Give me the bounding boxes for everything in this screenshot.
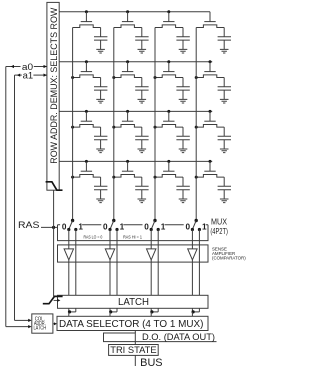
capacitor C31	[94, 136, 107, 139]
transistor Q24 gate bar	[204, 71, 215, 73]
switch throw 1 contact column 3	[157, 228, 160, 231]
ground cell 34	[220, 149, 229, 153]
wire column latch to data selector	[53, 323, 55, 325]
svg-text:LATCH: LATCH	[34, 326, 47, 332]
wire latch output B column 2	[116, 308, 118, 312]
wire latch output B column 1	[75, 308, 77, 312]
svg-text:(4P2T): (4P2T)	[210, 226, 228, 236]
transistor Q13 gate bar	[163, 21, 174, 23]
ground cell 41	[96, 199, 105, 203]
wire a0 vertical	[5, 67, 7, 327]
wire latch output B column 3	[157, 308, 159, 312]
bit line column 3	[154, 28, 156, 221]
wire to data selector column 3	[150, 312, 152, 316]
ground cell 32	[138, 149, 147, 153]
data out buffer box	[104, 333, 136, 342]
junction gate row1 col2	[126, 10, 129, 13]
junction bit line tap row2 col1	[71, 76, 74, 79]
ground lead cell 13	[182, 40, 184, 49]
junction bit line tap row4 col3	[154, 176, 157, 179]
junction gate row3 col4	[209, 110, 212, 113]
transistor Q24 gate lead	[209, 62, 211, 72]
transistor Q24 channel	[196, 75, 224, 78]
svg-text:1: 1	[202, 223, 207, 232]
latch strobe rising edge symbol	[43, 296, 63, 303]
transistor Q13 gate lead	[168, 12, 170, 22]
wire sense amp output column 1	[68, 260, 70, 295]
switch pole junction column 2	[112, 219, 115, 222]
capacitor C43	[176, 186, 189, 189]
wire a1 vertical	[14, 75, 16, 320]
transistor Q23 channel	[155, 75, 183, 78]
transistor Q33 gate lead	[168, 111, 170, 121]
svg-text:1: 1	[78, 223, 83, 232]
wire merge column 2	[110, 311, 117, 313]
transistor Q31 gate bar	[81, 120, 92, 122]
junction bit line tap row4 col2	[112, 176, 115, 179]
wire throw0 to sense amp column 4	[191, 230, 193, 249]
svg-text:BUS: BUS	[140, 357, 162, 369]
transistor Q42 gate lead	[127, 161, 129, 171]
wire latch output A column 3	[150, 308, 152, 312]
transistor Q43 gate bar	[163, 170, 174, 172]
ground cell 11	[96, 49, 105, 53]
ground lead cell 12	[141, 40, 143, 49]
transistor Q41 gate lead	[85, 161, 87, 171]
junction bit line tap row4 col4	[195, 176, 198, 179]
junction gate row3 col1	[85, 110, 88, 113]
capacitor C44	[218, 186, 231, 189]
transistor Q21 gate lead	[85, 62, 87, 72]
arrowhead a1 left	[17, 73, 20, 76]
transistor Q44 gate bar	[204, 170, 215, 172]
wire a1 horizontal to label	[15, 74, 22, 76]
svg-text:0: 0	[144, 223, 149, 232]
junction bit line tap row3 col2	[112, 126, 115, 129]
row address demux box	[47, 2, 59, 190]
transistor Q23 gate bar	[163, 71, 174, 73]
transistor Q34 gate bar	[204, 120, 215, 122]
switch pole junction column 3	[153, 219, 156, 222]
ground cell 12	[138, 49, 147, 53]
capacitor C43 lead	[182, 177, 184, 186]
ground lead cell 21	[100, 90, 102, 99]
transistor Q42 gate bar	[122, 170, 133, 172]
switch throw 1 contact column 4	[198, 228, 201, 231]
arrowhead a1 into demux	[44, 73, 47, 76]
ground cell 33	[179, 149, 188, 153]
latch strobe arrow	[54, 299, 58, 301]
wire throw0 to sense amp column 2	[109, 230, 111, 249]
junction gate row1 col3	[167, 10, 170, 13]
switch throw 0 contact column 4	[191, 228, 194, 231]
arrowhead a0 left	[11, 65, 14, 68]
transistor Q43 gate lead	[168, 161, 170, 171]
svg-text:RAS: RAS	[18, 220, 40, 231]
junction bit line tap row3 col3	[154, 126, 157, 129]
capacitor C34 lead	[223, 127, 225, 136]
capacitor C23	[176, 87, 189, 90]
arrowhead a0 into demux	[44, 65, 47, 68]
wire throw1 bypass to latch column 2	[116, 230, 118, 296]
bit line column 4	[195, 28, 197, 221]
transistor Q11 gate lead	[85, 12, 87, 22]
svg-text:1: 1	[161, 223, 166, 232]
ground lead cell 32	[141, 140, 143, 149]
junction gate row4 col2	[126, 160, 129, 163]
wire to data selector column 1	[68, 312, 70, 316]
wire tri state to bus	[134, 355, 136, 366]
transistor Q21 channel	[73, 75, 101, 78]
transistor Q14 gate lead	[209, 12, 211, 22]
junction bit line tap row2 col2	[112, 76, 115, 79]
wire sense amp output column 4	[191, 260, 193, 295]
ground lead cell 42	[141, 190, 143, 199]
transistor Q44 channel	[196, 175, 224, 178]
svg-text:LATCH: LATCH	[118, 297, 149, 308]
transistor Q23 gate lead	[168, 62, 170, 72]
capacitor C12 lead	[141, 28, 143, 37]
capacitor C24 lead	[223, 78, 225, 87]
wire throw1 bypass to latch column 3	[157, 230, 159, 296]
capacitor C23 lead	[182, 78, 184, 87]
ground cell 44	[220, 199, 229, 203]
svg-text:1: 1	[120, 223, 125, 232]
ground lead cell 22	[141, 90, 143, 99]
transistor Q32 gate lead	[127, 111, 129, 121]
sense amplifier U4	[188, 249, 197, 260]
transistor Q11 gate bar	[81, 21, 92, 23]
junction merge column 4	[192, 310, 195, 313]
ground lead cell 44	[223, 190, 225, 199]
junction merge column 2	[109, 310, 112, 313]
ground cell 43	[179, 199, 188, 203]
wire to data selector column 2	[109, 312, 111, 316]
wire throw0 to sense amp column 1	[68, 230, 70, 249]
capacitor C41 lead	[100, 177, 102, 186]
ground cell 24	[220, 99, 229, 103]
capacitor C13 lead	[182, 28, 184, 37]
switch pole junction column 1	[71, 219, 74, 222]
capacitor C21	[94, 87, 107, 90]
word line row 1	[59, 11, 210, 13]
ground lead cell 14	[223, 40, 225, 49]
wire data out to tri state	[134, 342, 136, 345]
ground cell 21	[96, 99, 105, 103]
sense amplifier U1	[64, 249, 73, 260]
bit line column 1	[72, 28, 74, 221]
wire RAS vertical to latch strobe	[53, 190, 55, 296]
transistor Q11 channel	[73, 25, 101, 28]
junction gate row2 col2	[126, 60, 129, 63]
transistor Q22 gate bar	[122, 71, 133, 73]
word line row 3	[59, 110, 212, 112]
svg-text:RAS HI = 1: RAS HI = 1	[123, 234, 142, 239]
capacitor C14 lead	[223, 28, 225, 37]
wire throw1 bypass to latch column 1	[75, 230, 77, 296]
capacitor C32	[135, 136, 148, 139]
ground cell 31	[96, 149, 105, 153]
capacitor C12	[135, 37, 148, 40]
junction bit line tap row2 col3	[154, 76, 157, 79]
wire throw1 bypass to latch column 4	[198, 230, 200, 296]
junction gate row3 col3	[167, 110, 170, 113]
capacitor C33 lead	[182, 127, 184, 136]
switch throw 0 contact column 1	[67, 228, 70, 231]
transistor Q33 channel	[155, 125, 183, 128]
arrowhead into data selector	[54, 322, 57, 325]
ground lead cell 31	[100, 140, 102, 149]
capacitor C21 lead	[100, 78, 102, 87]
junction bit line tap row3 col1	[71, 126, 74, 129]
capacitor C31 lead	[100, 127, 102, 136]
junction gate row2 col1	[85, 60, 88, 63]
svg-text:D.O. (DATA OUT): D.O. (DATA OUT)	[142, 332, 215, 342]
capacitor C14	[218, 37, 231, 40]
wire a0 horizontal to label	[6, 66, 21, 68]
capacitor C11	[94, 37, 107, 40]
svg-text:0: 0	[62, 223, 67, 232]
capacitor C22 lead	[141, 78, 143, 87]
capacitor C22	[135, 87, 148, 90]
transistor Q31 gate lead	[85, 111, 87, 121]
switch throw 1 contact column 1	[74, 228, 77, 231]
transistor Q14 channel	[196, 25, 224, 28]
junction RAS	[52, 226, 55, 229]
transistor Q21 gate bar	[81, 71, 92, 73]
switch pole junction column 4	[195, 219, 198, 222]
sense amplifier box	[58, 245, 209, 262]
transistor Q22 channel	[114, 75, 142, 78]
capacitor C33	[176, 136, 189, 139]
capacitor C11 lead	[100, 28, 102, 37]
svg-text:TRI STATE: TRI STATE	[110, 344, 156, 355]
transistor Q13 channel	[155, 25, 183, 28]
transistor Q34 channel	[196, 125, 224, 128]
ground cell 14	[220, 49, 229, 53]
ground cell 23	[179, 99, 188, 103]
ground lead cell 41	[100, 190, 102, 199]
svg-text:(COMPARATOR): (COMPARATOR)	[212, 255, 246, 260]
latch box	[58, 295, 209, 308]
junction merge column 3	[150, 310, 153, 313]
bit line column 2	[113, 28, 115, 221]
switch lever column 3	[151, 221, 155, 230]
junction gate row2 col3	[167, 60, 170, 63]
svg-text:a1: a1	[23, 70, 33, 80]
junction bit line tap row4 col1	[71, 176, 74, 179]
sense amplifier U2	[105, 249, 114, 260]
ground lead cell 34	[223, 140, 225, 149]
wire latch output A column 2	[109, 308, 111, 312]
junction gate row3 col2	[126, 110, 129, 113]
wire a1 into demux	[33, 74, 47, 76]
wire latch output A column 4	[191, 308, 193, 312]
ground lead cell 11	[100, 40, 102, 49]
junction bit line tap row2 col4	[195, 76, 198, 79]
junction merge column 1	[68, 310, 71, 313]
junction bit line tap row3 col4	[195, 126, 198, 129]
tri state box	[109, 345, 159, 356]
transistor Q12 gate lead	[127, 12, 129, 22]
wire RAS to mux	[41, 226, 58, 228]
junction gate row2 col4	[209, 60, 212, 63]
wire merge column 4	[192, 311, 199, 313]
svg-text:0: 0	[185, 223, 190, 232]
transistor Q32 channel	[114, 125, 142, 128]
switch throw 0 contact column 3	[150, 228, 153, 231]
junction gate row1 col1	[85, 10, 88, 13]
capacitor C41	[94, 186, 107, 189]
RAS falling-edge strobe at demux bottom	[46, 182, 63, 190]
switch lever column 1	[69, 221, 73, 230]
ground lead cell 24	[223, 90, 225, 99]
junction gate row4 col3	[167, 160, 170, 163]
transistor Q32 gate bar	[122, 120, 133, 122]
wire a0 into demux	[34, 66, 47, 68]
data selector box	[57, 316, 208, 330]
capacitor C42 lead	[141, 177, 143, 186]
ground lead cell 43	[182, 190, 184, 199]
wire latch output A column 1	[68, 308, 70, 312]
wire sense amp output column 2	[109, 260, 111, 295]
transistor Q31 channel	[73, 125, 101, 128]
ground cell 42	[138, 199, 147, 203]
transistor Q14 gate bar	[204, 21, 215, 23]
junction gate row4 col1	[85, 160, 88, 163]
wire merge column 3	[151, 311, 158, 313]
transistor Q34 gate lead	[209, 111, 211, 121]
svg-text:RAS LO = 0: RAS LO = 0	[84, 234, 103, 239]
capacitor C34	[218, 136, 231, 139]
mux box (4P2T)	[58, 225, 209, 241]
wire merge column 1	[69, 311, 76, 313]
svg-text:ROW ADDR. DEMUX: SELECTS ROW: ROW ADDR. DEMUX: SELECTS ROW	[49, 7, 59, 163]
junction gate row4 col4	[209, 160, 212, 163]
transistor Q43 channel	[155, 175, 183, 178]
sense amplifier U3	[147, 249, 156, 260]
transistor Q33 gate bar	[163, 120, 174, 122]
switch throw 1 contact column 2	[115, 228, 118, 231]
capacitor C42	[135, 186, 148, 189]
svg-text:0: 0	[103, 223, 108, 232]
capacitor C32 lead	[141, 127, 143, 136]
ground cell 13	[179, 49, 188, 53]
capacitor C13	[176, 37, 189, 40]
wire latch output B column 4	[198, 308, 200, 312]
capacitor C44 lead	[223, 177, 225, 186]
transistor Q44 gate lead	[209, 161, 211, 171]
transistor Q12 gate bar	[122, 21, 133, 23]
arrowhead a1 into column latch	[28, 319, 31, 322]
capacitor C24	[218, 87, 231, 90]
switch lever column 4	[192, 221, 196, 230]
wire data selector to data out	[134, 331, 136, 334]
word line row 4	[59, 160, 212, 162]
word line row 2	[59, 61, 212, 63]
column address latch box	[32, 314, 53, 333]
transistor Q41 channel	[73, 175, 101, 178]
wire a0 into column latch	[6, 326, 30, 328]
switch throw 0 contact column 2	[108, 228, 111, 231]
svg-text:MUX: MUX	[211, 216, 227, 226]
transistor Q22 gate lead	[127, 62, 129, 72]
ground lead cell 33	[182, 140, 184, 149]
wire throw0 to sense amp column 3	[150, 230, 152, 249]
switch lever column 2	[110, 221, 114, 230]
ground lead cell 23	[182, 90, 184, 99]
wire sense amp output column 3	[150, 260, 152, 295]
wire to data selector column 4	[191, 312, 193, 316]
arrowhead a0 into column latch	[28, 325, 31, 328]
ground cell 22	[138, 99, 147, 103]
transistor Q12 channel	[114, 25, 142, 28]
svg-text:DATA SELECTOR (4 TO 1 MUX): DATA SELECTOR (4 TO 1 MUX)	[59, 319, 203, 330]
transistor Q42 channel	[114, 175, 142, 178]
wire a1 into column latch	[15, 319, 31, 321]
transistor Q41 gate bar	[81, 170, 92, 172]
data out underline	[135, 341, 216, 343]
